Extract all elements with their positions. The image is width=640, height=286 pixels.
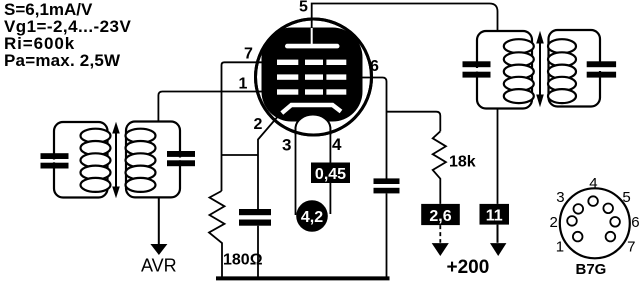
wire: T2 primary to box 11	[497, 108, 499, 204]
T2 left tank	[477, 31, 532, 109]
svg-text:7: 7	[627, 239, 635, 256]
T1 left capacitor	[41, 153, 69, 168]
svg-text:5: 5	[622, 189, 630, 206]
wire: cathode junction	[222, 154, 259, 156]
cathode	[282, 105, 341, 113]
supply arrow left	[432, 243, 449, 256]
screen current box 2,6	[421, 204, 460, 225]
T2 right tank	[549, 30, 601, 107]
grid g3 row	[277, 60, 346, 65]
T2 tuning arrow	[539, 40, 541, 98]
T1 primary coil	[81, 129, 111, 192]
svg-text:6: 6	[370, 58, 379, 75]
wire: g2 branch to 18k	[387, 112, 441, 132]
anode lead inside block	[311, 28, 313, 46]
svg-text:AVR: AVR	[141, 256, 177, 276]
T1 left tank	[54, 122, 108, 198]
grid g1 row	[277, 89, 346, 94]
svg-text:11: 11	[486, 208, 503, 225]
wire: box 11 to arrow	[497, 225, 499, 243]
B7G socket outline	[560, 188, 630, 258]
resistor 18k	[433, 131, 446, 204]
wire: heater pin 3 lead	[295, 134, 297, 215]
grid g2 row	[277, 74, 346, 79]
T1 right tank	[126, 122, 180, 198]
socket pin 1	[573, 232, 583, 242]
svg-text:2: 2	[254, 116, 263, 133]
heater voltage circle 4,2	[296, 200, 328, 232]
wire: heater pin 4 lead	[329, 134, 331, 214]
capacitor g2 decoupling	[374, 178, 400, 193]
wire: bypass cap to rail	[257, 226, 259, 277]
wire: anode pin 5 to T2 primary top	[312, 4, 498, 32]
wire: pin 2 (cathode) lead	[258, 108, 286, 210]
svg-text:Pa=max. 2,5W: Pa=max. 2,5W	[4, 51, 121, 70]
T2 left capacitor	[463, 61, 491, 77]
svg-text:4: 4	[332, 135, 342, 154]
socket pin 6	[610, 217, 620, 227]
svg-text:B7G: B7G	[576, 261, 607, 278]
wire: dashed below 2,6	[439, 225, 441, 243]
tube data text block	[4, 0, 131, 70]
heater current box 0,45	[311, 163, 350, 184]
T1 secondary coil	[126, 129, 156, 192]
capacitor cathode bypass	[239, 209, 271, 226]
T2 primary coil	[504, 39, 534, 103]
svg-text:180Ω: 180Ω	[223, 252, 263, 269]
wire: pin 6 (g2) lead	[346, 78, 387, 179]
socket pin 5	[603, 204, 613, 214]
svg-text:3: 3	[556, 189, 564, 206]
T2 left capacitor gap	[472, 68, 482, 72]
svg-text:0,45: 0,45	[315, 166, 346, 183]
anode plate	[285, 44, 340, 49]
socket pin 4	[588, 196, 598, 206]
socket pin 3	[574, 204, 584, 214]
svg-text:3: 3	[282, 136, 291, 155]
tube V1 envelope	[256, 19, 372, 135]
socket pin 7	[606, 232, 616, 242]
wire: T1 to AVR	[158, 197, 160, 245]
svg-text:4: 4	[589, 175, 597, 192]
ground rail	[216, 276, 390, 280]
svg-text:+200: +200	[447, 257, 490, 278]
svg-text:6: 6	[631, 214, 639, 231]
socket pin 2	[567, 216, 577, 226]
heater filament arc	[296, 115, 331, 135]
svg-text:4,2: 4,2	[301, 209, 323, 226]
T1 right capacitor gap	[175, 158, 185, 161]
anode current box 11	[480, 204, 510, 225]
svg-text:1: 1	[556, 239, 564, 256]
svg-text:1: 1	[239, 76, 248, 93]
wire: pin 7 (g3) horizontal lead	[222, 62, 277, 191]
T2 secondary coil	[548, 39, 576, 103]
svg-text:2: 2	[550, 214, 558, 231]
AVR arrow	[150, 244, 167, 255]
T1 right capacitor	[167, 151, 195, 166]
T2 right capacitor	[587, 61, 616, 77]
tube V1 electrode block	[262, 28, 363, 122]
T1 tuning arrow	[115, 131, 117, 189]
T1 left capacitor gap	[49, 160, 59, 163]
svg-text:2,6: 2,6	[429, 208, 451, 225]
svg-text:7: 7	[244, 46, 253, 63]
wire: g2 cap to rail	[386, 193, 388, 277]
tube envelope overlay stroke	[256, 19, 372, 135]
resistor 180 ohm	[209, 191, 225, 277]
supply arrow right	[490, 243, 506, 256]
wire: pin 1 (g1) lead to T1 secondary	[158, 92, 272, 122]
T2 right capacitor gap	[595, 67, 605, 71]
svg-text:5: 5	[299, 0, 308, 16]
svg-text:18k: 18k	[449, 154, 476, 171]
